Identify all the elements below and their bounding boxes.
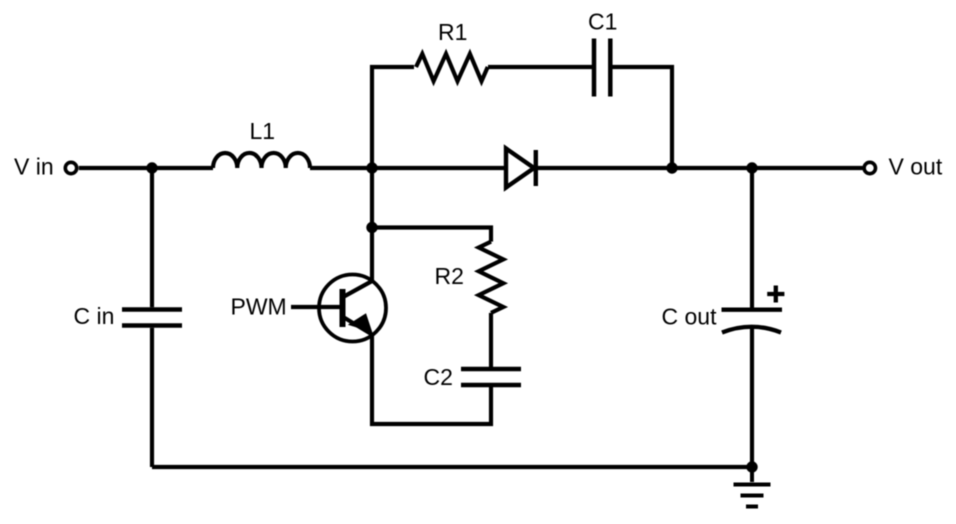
wire PWM base	[291, 305, 342, 309]
wire C1 to output node	[610, 67, 672, 168]
transistor Q1	[319, 228, 386, 342]
svg-text:C in: C in	[74, 303, 115, 329]
node C out tap	[746, 162, 757, 173]
svg-text:V out: V out	[889, 154, 943, 180]
node gate branch junction	[366, 222, 377, 233]
svg-text:C1: C1	[588, 9, 617, 35]
inductor L1	[213, 153, 310, 168]
svg-text:R1: R1	[438, 19, 467, 45]
svg-text:C2: C2	[424, 364, 453, 390]
wire diode to V out	[533, 166, 863, 170]
wire ground rail	[152, 465, 752, 469]
wire junction to R2	[372, 228, 491, 242]
svg-text:L1: L1	[250, 118, 276, 144]
capacitor C in	[122, 168, 182, 467]
terminal V in	[65, 162, 76, 173]
wire L1 to diode	[310, 166, 506, 170]
terminal V out	[864, 162, 875, 173]
wire R2 to C2	[489, 313, 493, 369]
ground	[734, 467, 771, 507]
svg-text:V in: V in	[14, 154, 54, 180]
wire V in to L1	[79, 166, 213, 170]
capacitor C out	[722, 168, 785, 467]
diode D1	[506, 149, 536, 188]
wire C2 to emitter	[372, 335, 491, 425]
wire R1 to C1	[488, 65, 594, 69]
node ground junction	[746, 461, 757, 472]
node switch junction	[366, 162, 377, 173]
capacitor C2	[461, 369, 521, 385]
svg-text:R2: R2	[435, 263, 464, 289]
node C in tap	[146, 162, 157, 173]
svg-text:C out: C out	[662, 304, 718, 330]
resistor R1	[416, 54, 488, 81]
svg-text:PWM: PWM	[231, 294, 287, 320]
resistor R2	[479, 242, 504, 313]
node C1 return	[666, 162, 677, 173]
capacitor C1	[594, 39, 610, 97]
wire snubber riser	[372, 67, 414, 228]
